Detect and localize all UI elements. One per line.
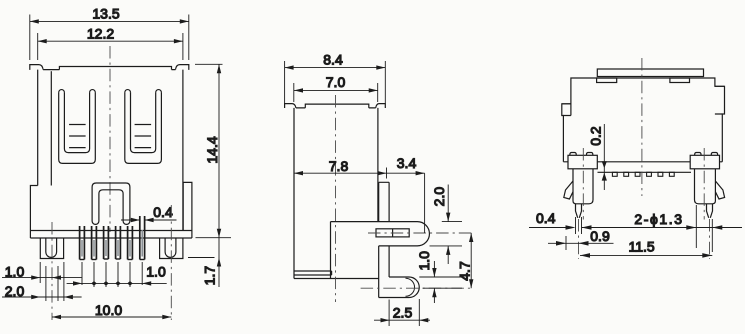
right spring slot inner U: [131, 92, 156, 152]
dim 10.0: [52, 315, 171, 319]
svg-text:2.5: 2.5: [393, 305, 413, 321]
foot inner cap line: [406, 278, 415, 296]
svg-text:11.5: 11.5: [628, 239, 654, 255]
right tower barb: [715, 181, 724, 199]
svg-text:0.2: 0.2: [587, 126, 603, 146]
svg-text:1.0: 1.0: [5, 263, 25, 279]
right cap bumps: [695, 153, 718, 156]
side view top ears: [285, 104, 296, 108]
pin pitch line with diamonds: [67, 281, 167, 286]
dim 7.0: [294, 83, 378, 102]
tab contact window: [376, 229, 409, 237]
LEFT-VIEW: [2, 6, 231, 320]
left spring slot outer U: [59, 92, 96, 163]
left tower pin: [576, 204, 582, 218]
left spring slot inner U: [64, 92, 89, 152]
rear top plate: [597, 69, 703, 77]
dim 0.4 rear: [529, 225, 614, 230]
svg-text:3.4: 3.4: [397, 155, 417, 171]
solder tab: [331, 222, 430, 246]
dim 2.0 tab: [430, 185, 463, 265]
dim 0.2: [602, 124, 607, 190]
dim 0.9: [548, 241, 614, 246]
svg-text:1.0: 1.0: [146, 264, 166, 280]
dim 13.5: [30, 15, 189, 61]
svg-text:1.7: 1.7: [201, 266, 217, 286]
center staple inner: [99, 190, 123, 221]
insulator block edge: [330, 222, 332, 279]
left slot top caps: [59, 90, 96, 93]
rear view bottom seam: [598, 171, 692, 173]
foot centerline: [361, 287, 474, 289]
shell right bottom tab: [183, 182, 192, 238]
rear view body outline: [562, 78, 725, 162]
rear view bottom edge: [563, 161, 722, 163]
center staple outer: [92, 183, 130, 221]
left mounting leg: [40, 238, 63, 259]
pin extension lines: [566, 205, 712, 259]
svg-text:0.4: 0.4: [536, 210, 556, 226]
tab centerline: [368, 232, 474, 234]
svg-text:0.9: 0.9: [590, 228, 610, 244]
side view vertical centerline: [335, 95, 337, 302]
svg-text:8.4: 8.4: [323, 51, 343, 67]
shell left bottom step: [30, 186, 37, 239]
rear leg: [379, 182, 389, 297]
plate notches: [597, 78, 617, 83]
side view top edge: [296, 107, 376, 109]
shell raised top plate: [59, 67, 171, 70]
center staple arm bottom caps: [92, 221, 130, 224]
dim 1.7: [188, 238, 221, 287]
dim 14.4: [195, 64, 231, 237]
dim 8.4: [285, 61, 386, 103]
base flange lines: [30, 231, 192, 239]
contact pins row: [80, 216, 145, 260]
right tower body: [695, 168, 716, 204]
svg-text:12.2: 12.2: [87, 25, 114, 41]
right mounting leg: [160, 238, 183, 259]
shell side walls: [38, 70, 183, 231]
svg-text:2-ϕ1.3: 2-ϕ1.3: [634, 211, 683, 227]
bottom extension lines: [40, 262, 142, 301]
dim 1.0 left: [2, 275, 82, 279]
svg-text:7.8: 7.8: [329, 158, 349, 174]
right tower pin: [707, 204, 713, 218]
right spring slot outer U: [125, 92, 162, 163]
left leg inner arch: [46, 238, 57, 257]
dim 11.5: [580, 253, 712, 258]
dim 7.8 and 3.4: [294, 168, 425, 234]
vertical centerline: [109, 46, 111, 232]
side view shell walls: [294, 108, 378, 279]
MIDDLE-VIEW: [285, 51, 474, 326]
left tower barb: [564, 181, 573, 199]
svg-text:1.0: 1.0: [416, 251, 432, 271]
svg-text:0.4: 0.4: [153, 204, 173, 220]
dim 0.4 pin: [121, 216, 177, 226]
dim 2-phi1.3: [614, 225, 743, 230]
left contact rungs: [69, 125, 86, 148]
svg-text:7.0: 7.0: [326, 74, 346, 90]
left tower centerline: [582, 148, 584, 220]
right leg inner arch: [165, 238, 176, 257]
side view raised top plate: [305, 104, 369, 108]
side view base bottom: [294, 278, 379, 280]
right tower centerline: [703, 148, 705, 220]
dim 2.5: [374, 299, 430, 326]
rear centerline: [641, 58, 643, 196]
dim 12.2: [38, 33, 183, 60]
svg-text:10.0: 10.0: [95, 302, 122, 318]
svg-text:13.5: 13.5: [92, 6, 119, 22]
right slot top caps: [125, 90, 162, 93]
right contact rungs: [135, 125, 152, 148]
left cap bumps: [570, 153, 593, 156]
svg-text:2.0: 2.0: [5, 283, 25, 299]
svg-text:14.4: 14.4: [204, 136, 220, 163]
right tower cap: [690, 155, 719, 169]
svg-text:2.0: 2.0: [431, 187, 447, 207]
dim 4.7: [469, 233, 473, 288]
bottom foot: [379, 277, 420, 298]
side view shell bottom fold: [294, 271, 332, 275]
dim 2.0 left: [2, 295, 82, 299]
shell top edge: [43, 69, 175, 71]
dim 1.0 foot: [419, 261, 462, 303]
RIGHT-VIEW: [529, 58, 742, 259]
shell inner left line: [50, 71, 52, 185]
left tower cap: [568, 155, 597, 169]
shell body front view: top ears: [30, 65, 43, 70]
left tower body: [573, 168, 593, 204]
leg centerlines: [52, 205, 171, 320]
pins row rear: [612, 172, 674, 176]
svg-text:4.7: 4.7: [457, 261, 473, 281]
